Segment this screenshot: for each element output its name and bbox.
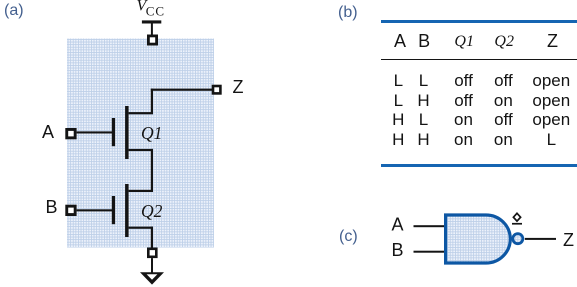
table bottom rule bbox=[381, 164, 577, 167]
Vcc power rail bar bbox=[142, 20, 161, 23]
table top rule bbox=[381, 20, 577, 23]
wire A to Q1 gate bbox=[77, 131, 112, 133]
ground bbox=[140, 272, 164, 284]
input A terminal bbox=[65, 128, 76, 139]
NAND output bubble bbox=[513, 234, 523, 244]
wire Vcc bar to Vcc terminal bbox=[151, 24, 153, 35]
wire node Z horizontal bbox=[151, 89, 213, 91]
svg-text:Q1: Q1 bbox=[141, 123, 162, 143]
table row 4 bbox=[392, 131, 404, 148]
label (c) bbox=[339, 228, 358, 245]
transistor Q1 gate bar bbox=[112, 118, 115, 146]
transistor Q2 gate bar bbox=[112, 196, 115, 224]
wire Q1 drain tap bbox=[129, 112, 153, 114]
table row 1 bbox=[394, 72, 403, 89]
wire Q2 drain tap bbox=[129, 190, 153, 192]
svg-text:Z: Z bbox=[563, 230, 574, 250]
open-drain indicator diamond bbox=[513, 213, 520, 221]
wire Q2 source tap bbox=[129, 227, 153, 229]
transistor Q2 channel bar bbox=[125, 184, 129, 237]
svg-text:Q2: Q2 bbox=[141, 201, 163, 221]
wire Q1 source to Q2 drain bbox=[151, 149, 153, 192]
wire Q2 source to GND terminal bbox=[151, 227, 153, 248]
table row 2 bbox=[394, 92, 403, 109]
table header Z bbox=[547, 32, 558, 50]
wire input A to NAND gate bbox=[414, 225, 445, 227]
svg-text:Z: Z bbox=[233, 77, 244, 97]
table header rule bbox=[381, 59, 577, 61]
svg-text:A: A bbox=[42, 122, 54, 142]
table row 3 bbox=[392, 111, 404, 128]
svg-text:CC: CC bbox=[146, 4, 165, 19]
open-drain indicator underline bbox=[512, 223, 522, 225]
GND pin terminal bbox=[147, 248, 158, 259]
node Z terminal bbox=[212, 85, 222, 95]
transistor Q1 channel bar bbox=[125, 106, 129, 159]
wire Q1 source tap bbox=[129, 149, 153, 151]
NAND gate U1 body bbox=[446, 215, 511, 263]
input B terminal bbox=[65, 205, 76, 216]
wire bubble to output Z bbox=[525, 238, 556, 240]
IC body (shaded box) bbox=[67, 39, 214, 248]
wire Q1 drain vertical bbox=[151, 89, 153, 114]
svg-text:A: A bbox=[392, 215, 404, 235]
svg-text:B: B bbox=[46, 197, 58, 217]
table header B bbox=[418, 32, 430, 50]
wire terminal to ground bbox=[151, 258, 153, 273]
label (b) bbox=[338, 4, 358, 21]
table header A bbox=[394, 32, 406, 50]
Vcc pin terminal bbox=[147, 35, 158, 46]
wire B to Q2 gate bbox=[77, 209, 112, 211]
wire input B to NAND gate bbox=[414, 251, 445, 253]
table header Q1 bbox=[454, 34, 474, 50]
svg-text:B: B bbox=[392, 240, 404, 260]
Vcc label bbox=[137, 0, 165, 19]
label (a) bbox=[4, 2, 24, 19]
table header Q2 bbox=[494, 34, 514, 50]
